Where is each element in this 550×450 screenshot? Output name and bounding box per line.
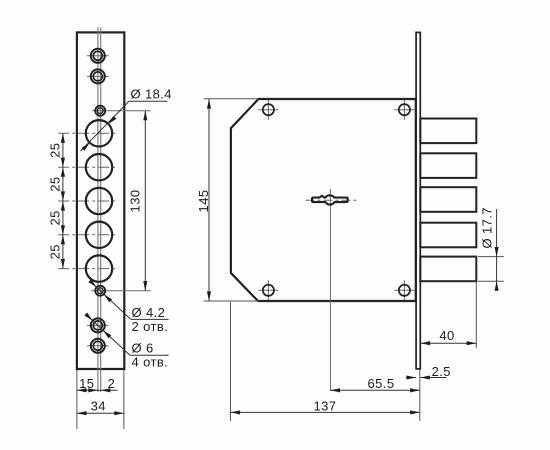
body screw bottom-left — [258, 280, 278, 300]
svg-text:2: 2 — [108, 376, 116, 391]
dimension 137 — [231, 302, 420, 421]
screw hole top 2 — [87, 69, 109, 83]
big hole 2 centerline — [58, 166, 118, 168]
label D4.2 leader — [88, 279, 168, 319]
svg-text:Ø 17.7: Ø 17.7 — [480, 207, 495, 248]
dimension D17.7 — [478, 207, 504, 291]
svg-text:25: 25 — [48, 210, 63, 225]
svg-text:25: 25 — [48, 176, 63, 191]
dimension 15 and 2 — [77, 376, 118, 392]
svg-text:25: 25 — [48, 143, 63, 158]
faceplate front view outline — [77, 32, 124, 369]
svg-text:Ø 6: Ø 6 — [132, 341, 154, 356]
svg-text:15: 15 — [79, 376, 94, 391]
body screw bottom-right — [394, 280, 414, 300]
dimension 130 — [128, 111, 148, 291]
big hole 4 — [86, 222, 112, 248]
big hole 1 — [86, 120, 112, 146]
dimension 25 x4 left — [48, 133, 65, 268]
hole D4.2 top — [92, 106, 151, 116]
label D6 leader — [84, 313, 168, 356]
faceplate centerline left (15mm axis) — [97, 28, 99, 393]
svg-text:65.5: 65.5 — [368, 376, 395, 391]
bolt 4 — [420, 223, 476, 248]
svg-text:137: 137 — [314, 399, 337, 414]
big hole 2 — [86, 154, 112, 180]
dimension 2.5 — [406, 364, 451, 380]
big hole 5 centerline — [58, 268, 118, 270]
svg-text:130: 130 — [128, 190, 143, 213]
strike plate side view — [416, 32, 420, 369]
hole D4.2 bottom — [91, 286, 151, 296]
bolt 3 — [420, 187, 476, 212]
dimension 145 — [196, 99, 259, 301]
svg-text:Ø 4.2: Ø 4.2 — [132, 305, 166, 320]
keyhole centerline vertical — [329, 189, 331, 391]
big hole 3 — [86, 188, 112, 214]
dimension 40 — [421, 282, 477, 348]
bolt 1 — [420, 119, 476, 144]
svg-text:4 отв.: 4 отв. — [132, 355, 169, 370]
big hole 5 — [86, 255, 112, 281]
big hole 4 centerline — [58, 234, 118, 236]
bolt 5 — [420, 257, 476, 282]
lock body outline — [231, 99, 416, 301]
faceplate centerline right (17mm axis) — [100, 28, 102, 393]
svg-text:145: 145 — [196, 190, 211, 213]
body screw top-right — [394, 100, 414, 120]
svg-text:Ø 18.4: Ø 18.4 — [131, 87, 172, 102]
screw hole bottom 1 — [87, 318, 109, 332]
body screw top-left — [258, 100, 278, 120]
bolt 2 — [420, 153, 476, 178]
label D18.4 leader — [81, 101, 168, 151]
dimension 34 — [77, 370, 124, 429]
svg-text:2.5: 2.5 — [432, 364, 451, 379]
dimension 65.5 — [330, 369, 419, 421]
svg-text:25: 25 — [48, 244, 63, 259]
screw hole top 1 — [87, 49, 109, 63]
big hole 1 centerline — [58, 132, 118, 134]
svg-text:34: 34 — [91, 399, 106, 414]
keyhole centerline horizontal — [306, 199, 357, 201]
big hole 3 centerline — [58, 200, 118, 202]
keyhole — [312, 195, 348, 204]
screw hole bottom 2 — [87, 339, 109, 353]
svg-text:40: 40 — [439, 328, 454, 343]
svg-text:2 отв.: 2 отв. — [132, 319, 169, 334]
